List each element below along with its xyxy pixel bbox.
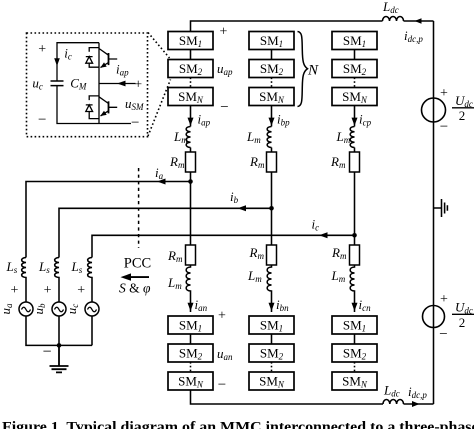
svg-text:icn: icn bbox=[359, 297, 372, 313]
inductor Lm upper arm a bbox=[186, 127, 190, 148]
PCC dashed boundary bbox=[138, 168, 140, 248]
label plus u_SM bbox=[134, 78, 142, 93]
label SM2 upper c bbox=[343, 61, 367, 77]
label Ls b bbox=[38, 259, 50, 275]
AC source ua bbox=[19, 302, 33, 316]
label plus upper a bbox=[220, 25, 228, 40]
svg-text:ub: ub bbox=[31, 303, 47, 315]
svg-text:Lm: Lm bbox=[336, 129, 351, 145]
wire SM1-SM2 upper b bbox=[271, 50, 273, 60]
label SM2 lower c bbox=[343, 346, 367, 362]
label i_dcp bottom bbox=[408, 384, 427, 400]
label SM2 lower a bbox=[179, 346, 203, 362]
inductor Ldc bottom bbox=[383, 400, 403, 405]
arrowhead PCC left bbox=[121, 273, 132, 280]
label Lm lower c bbox=[331, 268, 346, 284]
svg-text:ian: ian bbox=[195, 297, 208, 313]
label SMN upper c bbox=[342, 89, 368, 105]
label plus lower a bbox=[218, 309, 226, 324]
label u_an bbox=[217, 346, 233, 362]
svg-text:idc,p: idc,p bbox=[404, 28, 423, 44]
label Ldc bottom bbox=[383, 383, 400, 399]
label Lm upper a bbox=[173, 129, 188, 145]
label SMN lower c bbox=[342, 374, 368, 390]
label i_b bbox=[230, 189, 239, 205]
PCC arrow bbox=[131, 276, 149, 278]
svg-text:icp: icp bbox=[359, 112, 372, 128]
inductor Ls phase c bbox=[88, 258, 92, 303]
label i_a bbox=[155, 165, 164, 181]
svg-text:SMN: SMN bbox=[342, 374, 368, 390]
svg-text:SM2: SM2 bbox=[260, 61, 284, 77]
wire SM output bbox=[99, 83, 136, 85]
wire dotted SM2-SMN upper a bbox=[190, 78, 192, 88]
svg-text:Lm: Lm bbox=[173, 129, 188, 145]
label S and phi bbox=[119, 281, 151, 296]
svg-text:+: + bbox=[440, 292, 448, 307]
brace N bbox=[298, 32, 308, 107]
resistor Rm lower arm a bbox=[186, 245, 196, 265]
wire SM1-SM2 upper a bbox=[190, 50, 192, 60]
svg-text:+: + bbox=[38, 42, 46, 57]
submodule SM1 lower arm c bbox=[332, 316, 377, 334]
resistor Rm lower arm b bbox=[267, 245, 277, 265]
inductor Lm lower arm b bbox=[267, 265, 271, 312]
svg-text:+: + bbox=[220, 25, 228, 40]
node a junction dot bbox=[188, 179, 193, 184]
label SMN lower b bbox=[259, 374, 285, 390]
svg-text:Ls: Ls bbox=[6, 259, 18, 275]
label C_M bbox=[70, 76, 87, 92]
label plus phase a bbox=[10, 283, 18, 298]
label Udc/2 bottom fraction bbox=[452, 300, 474, 331]
label minus upper a bbox=[220, 100, 228, 116]
neutral junction dot bbox=[57, 343, 62, 348]
label i_dcp top bbox=[404, 28, 423, 44]
label SM2 lower b bbox=[260, 346, 284, 362]
inductor Ls phase b bbox=[55, 258, 59, 303]
wire SM bottom rail bbox=[57, 86, 131, 124]
svg-text:SM2: SM2 bbox=[179, 61, 203, 77]
svg-text:SMN: SMN bbox=[178, 374, 204, 390]
label i_an bbox=[195, 297, 208, 313]
wire phase a line bbox=[26, 182, 191, 258]
svg-text:S & φ: S & φ bbox=[119, 281, 151, 296]
inductor Lm lower arm c bbox=[350, 265, 354, 312]
label plus phase b bbox=[44, 283, 52, 298]
label i_ap bbox=[198, 112, 211, 128]
transistor Q2 lower IGBT bbox=[99, 97, 117, 116]
label minus u_SM bbox=[131, 115, 139, 131]
label i_cn bbox=[359, 297, 372, 313]
label Rm upper c bbox=[330, 154, 346, 170]
label u_c SM bbox=[32, 76, 43, 92]
label plus Udc top bbox=[440, 86, 448, 101]
submodule SMN lower arm a bbox=[168, 372, 213, 390]
svg-text:SM1: SM1 bbox=[179, 318, 202, 334]
label PCC bbox=[124, 256, 151, 272]
svg-text:Udc: Udc bbox=[455, 93, 473, 109]
submodule SM2 upper arm c bbox=[332, 60, 377, 78]
svg-text:Lm: Lm bbox=[247, 268, 262, 284]
arrowhead i_dc,p bottom right bbox=[412, 401, 420, 407]
label plus phase c bbox=[77, 283, 85, 298]
svg-text:SMN: SMN bbox=[342, 89, 368, 105]
arrowhead i_a left bbox=[157, 179, 166, 185]
arrowhead i_c left bbox=[319, 232, 328, 238]
svg-text:ua: ua bbox=[0, 303, 14, 315]
svg-text:SM2: SM2 bbox=[343, 61, 367, 77]
arrowhead i_dc,p top left bbox=[415, 18, 422, 24]
label u_a rotated bbox=[0, 303, 14, 315]
svg-text:Lm: Lm bbox=[246, 129, 261, 145]
voltage source Udc/2 top bbox=[422, 98, 446, 122]
wire SM top rail bbox=[57, 43, 99, 81]
wire bottom DC bus bbox=[191, 390, 434, 404]
svg-text:SM1: SM1 bbox=[343, 318, 366, 334]
label SMN upper b bbox=[259, 89, 285, 105]
svg-text:Ls: Ls bbox=[38, 259, 50, 275]
svg-text:Lm: Lm bbox=[167, 275, 182, 291]
label Rm lower a bbox=[167, 248, 183, 264]
label SM1 lower b bbox=[260, 318, 283, 334]
ground left bbox=[50, 345, 69, 372]
svg-text:Udc: Udc bbox=[455, 300, 473, 316]
svg-text:2: 2 bbox=[459, 108, 466, 123]
submodule SM2 lower arm a bbox=[168, 344, 213, 362]
label SM1 lower c bbox=[343, 318, 366, 334]
label i_c SM bbox=[64, 46, 72, 62]
submodule SM1 upper arm a bbox=[168, 32, 213, 50]
svg-text:−: − bbox=[218, 377, 226, 393]
svg-text:−: − bbox=[131, 115, 139, 131]
submodule SM2 upper arm a bbox=[168, 60, 213, 78]
ground right bbox=[434, 199, 448, 217]
node c junction dot bbox=[352, 233, 357, 238]
svg-text:uSM: uSM bbox=[125, 96, 144, 112]
inductor Lm lower arm a bbox=[186, 265, 190, 312]
svg-text:Rm: Rm bbox=[169, 154, 185, 170]
wire phase c line bbox=[92, 235, 355, 257]
label Lm lower b bbox=[247, 268, 262, 284]
svg-text:SM2: SM2 bbox=[179, 346, 203, 362]
label Rm upper b bbox=[249, 154, 265, 170]
svg-text:ibn: ibn bbox=[276, 297, 289, 313]
wire arm a upper to node bbox=[190, 106, 192, 246]
label SM1 lower a bbox=[179, 318, 202, 334]
resistor Rm upper arm a bbox=[186, 152, 196, 172]
AC source ub bbox=[52, 302, 66, 316]
label Lm upper b bbox=[246, 129, 261, 145]
label minus u_c SM bbox=[38, 112, 46, 128]
label i_bn bbox=[276, 297, 289, 313]
svg-text:+: + bbox=[10, 283, 18, 298]
wire half-bridge rail bbox=[98, 43, 100, 124]
label minus Udc top bbox=[440, 119, 448, 135]
svg-text:ib: ib bbox=[230, 189, 239, 205]
label Udc/2 top fraction bbox=[452, 93, 474, 123]
svg-text:uc: uc bbox=[64, 304, 80, 315]
arrowhead i_ap SM left bbox=[117, 81, 126, 87]
wire arm b upper to node bbox=[271, 106, 273, 246]
resistor Rm upper arm b bbox=[267, 152, 277, 172]
submodule SM2 upper arm b bbox=[249, 60, 294, 78]
label minus neutral bbox=[42, 344, 51, 361]
wire SM1-SM2 lower b bbox=[271, 334, 273, 344]
label Lm lower a bbox=[167, 275, 182, 291]
inductor Lm upper arm c bbox=[350, 127, 354, 148]
submodule SM2 lower arm c bbox=[332, 344, 377, 362]
arrowhead i_cp down bbox=[352, 118, 358, 126]
label u_c rotated bbox=[64, 304, 80, 315]
inductor Ls phase a bbox=[22, 258, 26, 303]
svg-text:ic: ic bbox=[312, 217, 320, 233]
svg-text:ibp: ibp bbox=[277, 112, 290, 128]
label i_c phase bbox=[312, 217, 320, 233]
resistor Rm upper arm c bbox=[350, 152, 360, 172]
label i_cp bbox=[359, 112, 372, 128]
label SMN lower a bbox=[178, 374, 204, 390]
svg-text:SM1: SM1 bbox=[260, 33, 283, 49]
label Ls a bbox=[6, 259, 18, 275]
label N bbox=[307, 63, 319, 79]
label Lm upper c bbox=[336, 129, 351, 145]
arrowhead i_bn down bbox=[269, 303, 275, 311]
svg-text:2: 2 bbox=[459, 315, 466, 330]
svg-text:uap: uap bbox=[217, 61, 233, 77]
svg-text:N: N bbox=[307, 63, 319, 79]
label SMN upper a bbox=[178, 89, 204, 105]
label SM2 upper a bbox=[179, 61, 203, 77]
svg-text:Ls: Ls bbox=[71, 259, 83, 275]
arrowhead i_c down bbox=[54, 58, 60, 66]
arrowhead i_bp down bbox=[269, 118, 275, 126]
arrowhead i_b left bbox=[238, 205, 247, 211]
svg-text:SM1: SM1 bbox=[179, 33, 202, 49]
transistor Q1 upper IGBT bbox=[99, 49, 117, 68]
svg-text:Rm: Rm bbox=[331, 245, 347, 261]
svg-text:SM1: SM1 bbox=[343, 33, 366, 49]
voltage source Udc/2 bottom bbox=[423, 306, 445, 328]
svg-text:Rm: Rm bbox=[249, 245, 265, 261]
diode D1 upper bbox=[86, 48, 99, 68]
diode D2 lower bbox=[86, 96, 99, 119]
dotted callout line bottom bbox=[148, 80, 171, 137]
label Rm upper a bbox=[169, 154, 185, 170]
svg-text:iap: iap bbox=[198, 112, 211, 128]
svg-text:ia: ia bbox=[155, 165, 164, 181]
arrowhead Q1 emitter bbox=[100, 62, 106, 67]
label u_b rotated bbox=[31, 303, 47, 315]
arrowhead i_an down bbox=[188, 303, 194, 311]
inductor Ldc top bbox=[383, 17, 404, 22]
svg-text:SMN: SMN bbox=[178, 89, 204, 105]
svg-text:SMN: SMN bbox=[259, 89, 285, 105]
wire sources to neutral bbox=[26, 316, 92, 345]
svg-text:−: − bbox=[439, 327, 447, 343]
wire phase b line bbox=[59, 208, 272, 257]
arrowhead Q2 emitter bbox=[100, 111, 106, 116]
svg-text:idc,p: idc,p bbox=[408, 384, 427, 400]
svg-text:−: − bbox=[220, 100, 228, 116]
node b junction dot bbox=[269, 206, 274, 211]
wire SM1-SM2 upper c bbox=[354, 50, 356, 60]
inductor Lm upper arm b bbox=[267, 127, 271, 148]
wire arm c upper to node bbox=[354, 106, 356, 246]
label plus Udc bottom bbox=[440, 292, 448, 307]
svg-text:SM2: SM2 bbox=[260, 346, 284, 362]
submodule SM1 lower arm b bbox=[249, 316, 294, 334]
svg-text:+: + bbox=[134, 78, 142, 93]
label SM1 upper b bbox=[260, 33, 283, 49]
svg-text:+: + bbox=[218, 309, 226, 324]
wire dotted SM2-SMN lower c bbox=[354, 362, 356, 372]
SM detail dashed box bbox=[27, 33, 148, 137]
submodule SM1 upper arm c bbox=[332, 32, 377, 50]
svg-text:−: − bbox=[38, 112, 46, 128]
svg-text:CM: CM bbox=[70, 76, 87, 92]
wire SM1-SM2 lower a bbox=[190, 334, 192, 344]
svg-text:−: − bbox=[42, 344, 51, 361]
label u_ap bbox=[217, 61, 233, 77]
submodule SMN lower arm c bbox=[332, 372, 377, 390]
dotted callout line top bbox=[148, 33, 170, 59]
submodule SMN lower arm b bbox=[249, 372, 294, 390]
svg-text:PCC: PCC bbox=[124, 256, 151, 272]
label Ls c bbox=[71, 259, 83, 275]
resistor Rm lower arm c bbox=[350, 245, 360, 265]
wire dotted SM2-SMN lower a bbox=[190, 362, 192, 372]
label Rm lower b bbox=[249, 245, 265, 261]
submodule SM1 upper arm b bbox=[249, 32, 294, 50]
svg-text:ic: ic bbox=[64, 46, 72, 62]
label u_SM bbox=[125, 96, 144, 112]
svg-text:−: − bbox=[440, 119, 448, 135]
caption Figure 1 bbox=[2, 420, 474, 429]
wire right DC rail bbox=[433, 21, 435, 404]
wire SM1-SM2 lower c bbox=[354, 334, 356, 344]
wire dotted SM2-SMN upper b bbox=[271, 78, 273, 88]
label plus u_c SM bbox=[38, 42, 46, 57]
svg-text:uan: uan bbox=[217, 346, 233, 362]
AC source uc bbox=[85, 302, 99, 316]
svg-text:+: + bbox=[44, 283, 52, 298]
label SM2 upper b bbox=[260, 61, 284, 77]
svg-text:Figure 1. Typical diagram of a: Figure 1. Typical diagram of an MMC inte… bbox=[2, 420, 474, 429]
submodule SMN upper arm c bbox=[332, 88, 377, 106]
label SM1 upper a bbox=[179, 33, 202, 49]
wire dotted SM2-SMN upper c bbox=[354, 78, 356, 88]
svg-text:SMN: SMN bbox=[259, 374, 285, 390]
label minus Udc bottom bbox=[439, 327, 447, 343]
submodule SM1 lower arm a bbox=[168, 316, 213, 334]
svg-text:Rm: Rm bbox=[249, 154, 265, 170]
svg-text:Ldc: Ldc bbox=[383, 383, 400, 399]
arrowhead i_cn down bbox=[352, 303, 358, 311]
svg-text:+: + bbox=[440, 86, 448, 101]
submodule SMN upper arm b bbox=[249, 88, 294, 106]
svg-text:+: + bbox=[77, 283, 85, 298]
svg-text:Rm: Rm bbox=[330, 154, 346, 170]
capacitor CM bbox=[51, 81, 64, 86]
svg-text:Ldc: Ldc bbox=[382, 0, 399, 15]
label SM1 upper c bbox=[343, 33, 366, 49]
label i_ap SM bbox=[116, 62, 129, 78]
submodule SM2 lower arm b bbox=[249, 344, 294, 362]
label Ldc top bbox=[382, 0, 399, 15]
svg-text:uc: uc bbox=[32, 76, 43, 92]
submodule SMN upper arm a bbox=[168, 88, 213, 106]
svg-text:SM1: SM1 bbox=[260, 318, 283, 334]
wire dotted SM2-SMN lower b bbox=[271, 362, 273, 372]
svg-text:Rm: Rm bbox=[167, 248, 183, 264]
svg-text:iap: iap bbox=[116, 62, 129, 78]
wire top DC bus bbox=[191, 21, 434, 32]
label i_bp bbox=[277, 112, 290, 128]
arrowhead i_ap down bbox=[188, 118, 194, 126]
svg-text:Lm: Lm bbox=[331, 268, 346, 284]
svg-text:SM2: SM2 bbox=[343, 346, 367, 362]
label Rm lower c bbox=[331, 245, 347, 261]
label minus lower a bbox=[218, 377, 226, 393]
